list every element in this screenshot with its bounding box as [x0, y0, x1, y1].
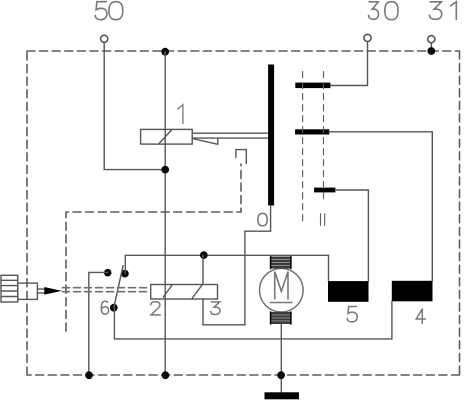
linkage double line coil1 to bar	[192, 133, 268, 138]
junction dot switch-left bottom border	[85, 371, 93, 379]
contact bar C	[314, 188, 335, 193]
contact bar B	[295, 129, 329, 134]
label 5	[347, 306, 357, 321]
wire bar bottom to coil 3 bottom	[203, 206, 271, 325]
label 31	[429, 2, 456, 20]
contact bar A	[295, 83, 330, 89]
wire switch moving contact to block 4	[114, 301, 392, 339]
motor bottom brush	[270, 312, 292, 324]
switch arm	[114, 266, 123, 308]
label 1	[178, 105, 183, 124]
label 0 node	[258, 213, 267, 225]
wire junction down to coil section 3	[202, 255, 204, 284]
terminal 30	[364, 34, 371, 41]
switch 6 left fixed contact	[104, 269, 112, 277]
motor top brush	[270, 257, 292, 269]
wire terminal 30 to contact A	[330, 42, 368, 86]
wire terminal 50 down to junction	[104, 43, 163, 170]
battery feed block 5	[328, 281, 369, 302]
ignition key shank	[37, 289, 44, 293]
terminal 50	[101, 35, 108, 42]
actuator fork dashes	[321, 214, 325, 226]
junction dot below coil 1	[161, 166, 169, 174]
wire contact B to block 4	[329, 132, 432, 281]
solenoid moving contact bar	[268, 65, 274, 206]
actuation arrow	[44, 287, 62, 295]
outer relay housing dashed border	[27, 51, 460, 375]
label 2	[151, 302, 161, 315]
ignition key grip	[1, 275, 18, 302]
relay coil 1	[141, 129, 193, 144]
motor M1	[260, 268, 304, 312]
dashed actuator line left	[302, 72, 304, 225]
junction dot 31 on border	[427, 47, 435, 55]
label 30	[369, 2, 398, 20]
mechanical linkage dashed double line	[63, 288, 151, 292]
main vertical wire	[164, 52, 166, 375]
relay coil 2-3	[151, 285, 218, 300]
switch 6 moving contact	[110, 304, 118, 312]
linkage wedge	[192, 138, 218, 144]
wire switch right contact riser to brush line	[125, 255, 328, 281]
battery feed block 4	[392, 281, 433, 302]
terminal 31	[428, 36, 435, 43]
ignition key body	[18, 283, 38, 299]
label 6	[101, 301, 108, 314]
wire switch left contact to bottom border	[89, 272, 108, 375]
inner armature dashed box	[66, 164, 241, 331]
wire contact C to block 5	[335, 190, 368, 281]
switch 6 right fixed contact	[121, 270, 129, 278]
dashed actuator line right	[323, 72, 325, 204]
label 3	[211, 302, 220, 315]
mechanical fork staple	[236, 150, 246, 164]
ground bar	[265, 392, 300, 399]
junction dot main line bottom border	[162, 371, 170, 379]
junction dot motor bottom border	[277, 371, 285, 379]
junction dot brush line	[200, 251, 208, 259]
junction dot main line on top border	[161, 48, 169, 56]
wire motor to ground	[280, 324, 282, 393]
wire terminal 31 stub	[430, 43, 432, 48]
label 4	[416, 309, 425, 324]
label 50	[95, 2, 122, 20]
